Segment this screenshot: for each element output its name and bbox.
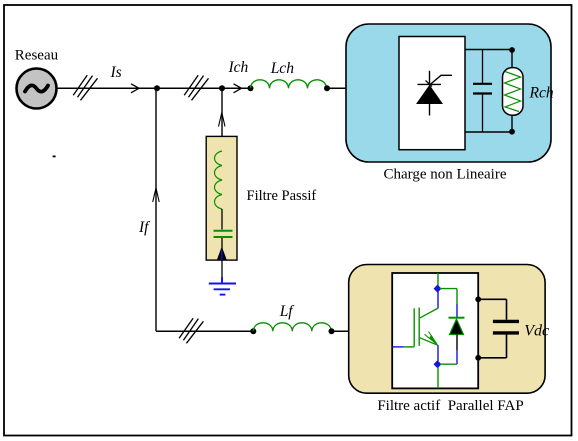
node (load top) [509,47,515,53]
wire: node A down (If branch) [155,88,157,331]
phase slashes on source wire [73,75,97,100]
svg-text:Lch: Lch [270,60,295,77]
node (load bottom) [509,129,515,135]
ground [209,277,236,295]
node H (dc bottom) [475,355,481,361]
resistor Rch [503,50,524,132]
current arrow If [153,188,160,202]
wire into FAP box [332,330,393,332]
wire top rail (load) [465,49,512,51]
inductor (passive filter) [215,151,223,209]
diode D1 [440,289,465,365]
inverter block [392,273,478,388]
svg-text:Vdc: Vdc [524,323,549,340]
wire bottom rail (load) [465,131,512,133]
svg-text:Charge non Lineaire: Charge non Lineaire [383,167,506,183]
node (blue, bottom) [434,360,442,368]
phase slashes (load branch) [184,75,208,100]
current arrow Ich [234,84,242,93]
wire into load box [327,87,399,89]
rectifier block [399,37,465,150]
active filter box (FAP) [349,265,545,394]
current arrow Is [131,84,139,93]
inductor Lch [251,80,327,88]
wire: node B down to passive filter [221,88,223,152]
transistor Q1 (IGBT) [392,273,438,361]
inductor Lf [253,323,331,331]
svg-text:Filtre Passif: Filtre Passif [247,188,317,204]
current arrow (into passive filter) [219,113,226,127]
ac source V1 (Reseau) [17,69,57,109]
wire: source to node A [57,87,157,89]
phase slashes (If branch) [179,318,203,343]
load box (Charge non Lineaire) [346,24,551,162]
node F [329,328,335,334]
passive filter box [206,136,237,260]
svg-text:Rch: Rch [529,85,554,102]
stray dot [53,156,56,158]
thyristor [417,71,452,116]
svg-text:Filtre actif Parallel FAP: Filtre actif Parallel FAP [377,398,523,414]
node (blue, top) [434,285,442,293]
capacitor (passive filter) [214,231,233,237]
svg-text:Is: Is [110,64,122,81]
svg-text:Reseau: Reseau [15,48,59,64]
node E [250,328,256,334]
arrow at passive filter output [221,238,223,260]
node B (tap to passive filter) [219,85,225,91]
node C [248,85,254,91]
wire: node A to node C [157,87,250,89]
capacitor Vdc [478,299,519,358]
wire: coil to capacitor [221,209,223,230]
node D [324,85,330,91]
svg-text:Ich: Ich [228,59,249,76]
wire to ground [221,260,223,284]
wire: bottom node to rect bottom [437,367,439,388]
wire: bottom bus [156,330,253,332]
node A (PCC junction) [154,85,160,91]
node G (dc top) [475,296,481,302]
capacitor (load) [473,50,492,133]
